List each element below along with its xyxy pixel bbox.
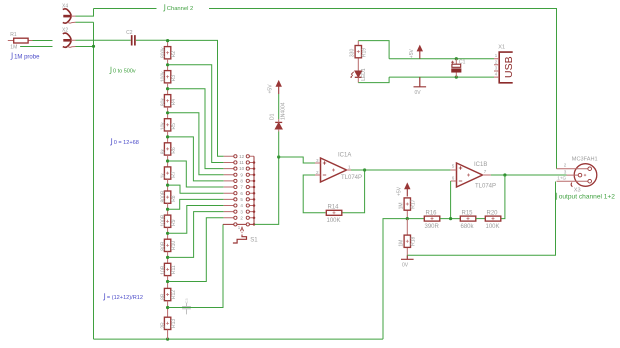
wire ladder stub below R12	[167, 301, 169, 308]
svg-text:TL074P: TL074P	[341, 175, 362, 181]
svg-text:0 = 12+68: 0 = 12+68	[114, 140, 139, 146]
resistor R19 330	[350, 41, 368, 71]
svg-text:R2: R2	[171, 51, 177, 58]
switch S1 contact row pin 4	[224, 203, 254, 208]
svg-text:0 to 500v: 0 to 500v	[113, 69, 136, 75]
wire ladder stub above R6	[167, 137, 169, 143]
wire D1 anode down	[278, 132, 280, 158]
junction ladder node 7	[166, 208, 169, 211]
switch S1 contact row pin 3	[224, 209, 254, 214]
svg-text:10R: 10R	[160, 265, 166, 275]
svg-text:800R: 800R	[160, 190, 166, 202]
svg-text:R20: R20	[487, 210, 499, 216]
svg-text:3: 3	[316, 158, 319, 163]
svg-text:2: 2	[240, 215, 243, 220]
wire ladder stub below R3	[167, 83, 169, 89]
wire bottom ground bus	[94, 338, 384, 340]
junction IC1A output / feedback	[363, 168, 366, 171]
switch S1 contact row pin 9	[224, 172, 254, 177]
svg-text:R17: R17	[411, 199, 417, 208]
svg-text:S1: S1	[250, 238, 258, 244]
svg-text:R9: R9	[171, 219, 177, 226]
resistor R5 10k	[160, 119, 177, 131]
svg-text:1k: 1k	[160, 173, 166, 179]
wire tap node 6 to S1 row	[168, 185, 224, 193]
svg-text:1M probe: 1M probe	[14, 54, 40, 60]
svg-text:1M: 1M	[399, 240, 405, 247]
switch S1 contact row pin 6	[224, 191, 254, 196]
resistor R9 100R	[160, 214, 177, 227]
svg-text:1+G: 1+G	[557, 176, 566, 181]
switch S1 bus junction	[253, 210, 256, 213]
wire ladder stub above R13	[167, 308, 169, 318]
wire node to R16	[407, 218, 424, 220]
svg-text:Channel 2: Channel 2	[167, 6, 193, 12]
connector X2 jack	[62, 28, 76, 48]
svg-text:R3: R3	[171, 75, 177, 82]
wire ladder stub above R5	[167, 113, 169, 119]
wire X2 sleeve to rail	[76, 46, 94, 48]
switch S1 bus junction	[253, 192, 256, 195]
switch S1 bus junction	[253, 180, 256, 183]
svg-text:R4: R4	[171, 99, 177, 106]
svg-text:330: 330	[350, 49, 356, 58]
wire channel 2 to XLR pin 2	[209, 9, 557, 169]
connector X4 jack	[62, 3, 76, 23]
svg-text:100R: 100R	[160, 214, 166, 226]
svg-text:100K: 100K	[327, 218, 341, 224]
svg-text:7: 7	[240, 185, 243, 190]
svg-text:1M: 1M	[399, 202, 405, 209]
wire ladder stub below R5	[167, 131, 169, 137]
LED1	[351, 68, 368, 83]
wire X4 tip up	[76, 9, 94, 17]
connector X1 USB	[494, 45, 515, 83]
switch S1 contact row pin 12	[224, 154, 254, 159]
switch S1 bus junction	[253, 174, 256, 177]
svg-text:2R: 2R	[160, 322, 166, 329]
svg-text:80k: 80k	[160, 98, 166, 107]
wire tap node 10 to S1 row	[168, 218, 224, 282]
wire IC1B pin6 down	[450, 181, 452, 219]
svg-text:output channel 1+2: output channel 1+2	[559, 194, 616, 201]
svg-text:+5V: +5V	[396, 186, 402, 196]
svg-text:USB: USB	[503, 56, 515, 78]
wire probe signal to X2 tip	[33, 40, 53, 42]
wire ladder stub below R9	[167, 227, 169, 233]
wire ladder stub below R10	[167, 252, 169, 258]
wire D1 cathode up	[278, 94, 280, 119]
wire LED1 to 0V rail	[358, 77, 389, 83]
wire ladder stub below R2	[167, 59, 169, 65]
wire ladder stub above R12	[167, 282, 169, 289]
wire tap node 5 to S1 row	[168, 161, 224, 187]
svg-text:0V: 0V	[402, 263, 409, 269]
capacitor C3 (grey, unused)	[182, 298, 191, 315]
wire ladder stub above R3	[167, 65, 169, 71]
svg-text:= (12+12)/R12: = (12+12)/R12	[107, 295, 143, 301]
junction ladder node 11	[166, 306, 169, 309]
+5V supply arrow on rail	[409, 45, 423, 59]
svg-text:R5: R5	[171, 123, 177, 130]
wire R15 to R20	[476, 218, 485, 220]
resistor R6 8k	[160, 143, 177, 155]
resistor R14 100K	[326, 205, 342, 225]
wire ground to XLR pin 1+G	[407, 182, 555, 256]
junction ladder node 4	[166, 135, 169, 138]
svg-text:6: 6	[240, 191, 243, 196]
resistor R4 80k	[160, 95, 177, 107]
wire channel 2 left segment	[94, 8, 157, 10]
svg-text:9: 9	[240, 172, 243, 177]
svg-text:R1: R1	[10, 32, 17, 38]
switch S1 pin 1 common row	[223, 223, 254, 230]
label 0 = 12+68	[110, 138, 112, 145]
wire +5V rail	[389, 58, 494, 60]
wire S1 common up to op-amp node	[255, 157, 279, 224]
switch S1 contact row pin 11	[224, 160, 254, 165]
svg-text:X1: X1	[498, 45, 505, 51]
svg-text:C2: C2	[126, 30, 133, 36]
wire output down to R20	[501, 175, 505, 219]
svg-text:8: 8	[240, 179, 243, 184]
svg-text:7: 7	[484, 169, 487, 174]
switch S1 contact row pin 8	[224, 179, 254, 184]
wire tap node 2 to S1 row	[168, 89, 224, 169]
diode D1 1N4004	[269, 102, 286, 131]
junction ladder node 3	[166, 111, 169, 114]
svg-text:4: 4	[495, 72, 498, 77]
wire bus up to R17/R18 node	[383, 219, 407, 340]
resistor R15 680k	[460, 210, 476, 230]
resistor R16 390R	[424, 210, 440, 230]
svg-text:+5V: +5V	[268, 84, 274, 94]
wire ladder stub below R11	[167, 276, 169, 282]
label = (12+12)/R2	[103, 293, 105, 300]
junction X2 sleeve / rail	[92, 45, 95, 48]
wire tap node 3 to S1 row	[168, 113, 224, 175]
svg-text:5: 5	[452, 163, 455, 168]
wire X4 sleeve	[76, 21, 94, 23]
svg-text:+5V: +5V	[409, 48, 415, 58]
wire ladder stub above R2	[167, 41, 169, 47]
switch S1 contact row pin 7	[224, 185, 254, 190]
junction output / R20	[503, 173, 506, 176]
svg-text:0V: 0V	[415, 90, 422, 96]
svg-text:10: 10	[239, 166, 245, 171]
wire ladder stub above R11	[167, 257, 169, 263]
resistor R12 8R	[160, 288, 177, 300]
svg-text:6: 6	[452, 175, 455, 180]
switch S1 contact row pin 5	[224, 197, 254, 202]
svg-text:R8: R8	[171, 195, 177, 202]
wire IC1A output to IC1B pin 5	[351, 169, 451, 171]
svg-text:2: 2	[316, 170, 319, 175]
svg-text:800k: 800k	[160, 47, 166, 58]
junction ladder node 2	[166, 87, 169, 90]
wire tap node 1 to S1 row	[168, 65, 224, 163]
wire tap node 9 to S1 row	[168, 212, 224, 258]
junction D1 / signal node	[277, 155, 280, 158]
op-amp IC1B TL074P	[451, 162, 496, 190]
svg-text:R6: R6	[171, 147, 177, 154]
wire ladder stub below R6	[167, 155, 169, 161]
svg-text:390R: 390R	[425, 224, 440, 230]
svg-text:1N4004: 1N4004	[281, 102, 287, 120]
wire node to IC1A pin 3	[279, 157, 315, 163]
wire IC1B output to XLR pin 3	[491, 174, 567, 176]
svg-text:100k: 100k	[160, 71, 166, 82]
resistor R1 1M (probe)	[8, 32, 33, 51]
svg-text:R7: R7	[171, 171, 177, 178]
wire ladder stub below R13	[167, 329, 169, 339]
wire ladder stub above R7	[167, 161, 169, 167]
svg-text:1: 1	[238, 225, 241, 230]
junction ladder node 5	[166, 159, 169, 162]
svg-text:D1: D1	[269, 113, 275, 120]
svg-text:8R: 8R	[160, 293, 166, 300]
wire ladder stub below R7	[167, 179, 169, 185]
switch S1 common bus line	[253, 156, 255, 224]
svg-text:X3: X3	[574, 187, 581, 193]
junction R17/R18/R16	[406, 217, 409, 220]
svg-text:1: 1	[348, 164, 351, 169]
svg-text:1: 1	[495, 53, 498, 58]
wire IC1A pin2 to R14	[303, 175, 325, 213]
svg-text:R18: R18	[411, 237, 417, 246]
svg-text:C3: C3	[184, 298, 189, 304]
switch S1 contact row pin 10	[224, 166, 254, 171]
resistor R17 1M	[399, 198, 417, 219]
svg-text:X2: X2	[62, 28, 68, 34]
connector X3 MC3FAH1 (XLR)	[557, 156, 598, 193]
junction pin6 net	[449, 217, 452, 220]
switch S1 bus junction	[253, 223, 256, 226]
resistor R18 1M	[399, 219, 417, 256]
svg-text:R10: R10	[171, 241, 177, 250]
svg-text:R11: R11	[171, 265, 177, 274]
junction ladder node 1	[166, 63, 169, 66]
svg-text:100K: 100K	[486, 224, 500, 230]
svg-text:2: 2	[495, 59, 498, 64]
wire left ground rail vertical	[93, 22, 95, 339]
wire 0V rail	[389, 76, 494, 78]
svg-text:10k: 10k	[160, 122, 166, 131]
svg-text:80R: 80R	[160, 241, 166, 251]
svg-text:IC1B: IC1B	[474, 162, 487, 168]
resistor R8 800R	[160, 190, 177, 203]
svg-text:5: 5	[240, 197, 243, 202]
wire ladder stub above R4	[167, 89, 169, 95]
resistor R3 100k	[160, 71, 177, 83]
svg-text:R15: R15	[462, 210, 474, 216]
resistor R2 800k	[160, 47, 177, 59]
wire ladder top to S1 pos 12	[168, 40, 224, 156]
svg-text:3: 3	[564, 169, 567, 174]
wire tap node 11 to S1 pin 1 row	[168, 224, 223, 307]
junction C4 bottom	[455, 76, 458, 79]
wire R16 to R15	[440, 218, 460, 220]
junction ladder node 0	[166, 39, 169, 42]
svg-text:R16: R16	[426, 210, 438, 216]
svg-text:LED1: LED1	[361, 68, 367, 81]
svg-text:X4: X4	[62, 3, 68, 9]
svg-text:IC1A: IC1A	[338, 153, 351, 159]
svg-text:8k: 8k	[160, 149, 166, 155]
op-amp IC1A TL074P	[315, 153, 362, 182]
wire ladder stub above R8	[167, 185, 169, 191]
switch S1 wiper arrow	[233, 227, 247, 244]
wire ladder stub above R10	[167, 233, 169, 239]
wire tap node 7 to S1 row	[168, 199, 224, 209]
resistor R10 80R	[160, 239, 177, 251]
svg-text:R19: R19	[362, 48, 368, 57]
switch S1 bus junction	[253, 217, 256, 220]
svg-text:3: 3	[495, 66, 498, 71]
switch S1 bus junction	[253, 204, 256, 207]
svg-text:TL074P: TL074P	[475, 183, 496, 189]
switch S1 bus junction	[253, 198, 256, 201]
wire ladder stub below R4	[167, 107, 169, 113]
wire ladder stub above R9	[167, 209, 169, 215]
svg-text:3: 3	[240, 209, 243, 214]
junction C4 top	[455, 57, 458, 60]
svg-text:R12: R12	[171, 290, 177, 299]
junction ladder node 6	[166, 184, 169, 187]
wire R14 to output	[343, 170, 365, 213]
label Channel 2	[163, 4, 165, 11]
resistor R11 10R	[160, 263, 177, 275]
wire ladder stub below R8	[167, 203, 169, 209]
switch S1 bus junction	[253, 186, 256, 189]
junction ladder node 10	[166, 280, 169, 283]
capacitor C4 (electrolytic)	[451, 59, 466, 77]
resistor R7 1k	[160, 167, 177, 179]
switch S1 bus junction	[253, 167, 256, 170]
svg-text:R13: R13	[171, 319, 177, 328]
junction ladder node 8	[166, 232, 169, 235]
svg-text:1M: 1M	[10, 44, 17, 50]
resistor R13 2R	[160, 317, 177, 329]
svg-text:2: 2	[564, 163, 567, 168]
ground 0V below R18	[401, 255, 414, 268]
label output channel 1+2	[555, 193, 557, 200]
wire R19 top to +5V rail	[358, 41, 389, 59]
ground 0V on rail	[414, 77, 427, 96]
svg-text:11: 11	[239, 160, 244, 165]
svg-text:R14: R14	[328, 205, 340, 211]
svg-text:C1: C1	[459, 60, 466, 66]
svg-text:12: 12	[239, 154, 245, 159]
label 0 to 500v	[109, 67, 111, 74]
svg-text:4: 4	[240, 203, 243, 208]
junction ladder node 9	[166, 256, 169, 259]
+5V supply arrow above R17	[396, 182, 410, 196]
wire tap node 8 to S1 row	[168, 206, 224, 234]
svg-text:680k: 680k	[461, 224, 475, 230]
label 1M probe	[11, 53, 13, 60]
junction R13 bottom / bus	[166, 338, 169, 341]
wire probe ground	[20, 46, 52, 48]
switch S1 contact row pin 2	[224, 215, 254, 220]
capacitor C2 (input coupling)	[76, 30, 168, 45]
resistor R20 100K	[485, 210, 501, 230]
switch S1 bus junction	[253, 161, 256, 164]
wire tap node 4 to S1 row	[168, 137, 224, 181]
svg-text:MC3FAH1: MC3FAH1	[572, 156, 598, 162]
+5V supply arrow above D1	[268, 80, 282, 94]
